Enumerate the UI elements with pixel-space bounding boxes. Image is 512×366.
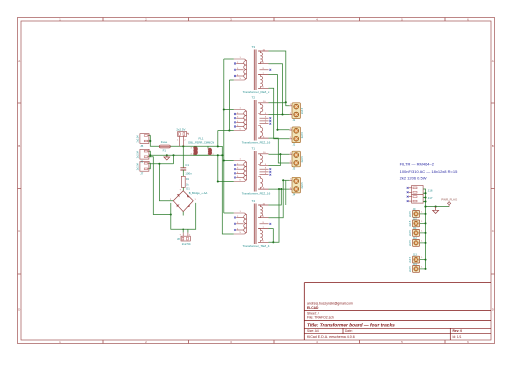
wire fuse to filter (L)	[170, 145, 193, 147]
svg-text:J16: J16	[428, 188, 433, 192]
svg-text:A: A	[18, 59, 20, 63]
junction bus branch	[217, 145, 219, 147]
svg-text:Transformer_FEZ_x: Transformer_FEZ_x	[243, 90, 270, 94]
wire N line to filter	[150, 154, 222, 156]
junction rail 1	[424, 192, 426, 194]
connector J14	[410, 263, 427, 272]
wire J17 pin1 stub	[423, 197, 425, 199]
svg-text:DBL_FERR_CMMCN: DBL_FERR_CMMCN	[188, 140, 214, 144]
svg-text:J7: J7	[140, 172, 143, 176]
junction T4 pin10 join	[280, 188, 282, 190]
wire pin5 chain T3-T2	[228, 80, 230, 131]
svg-text:2x2.54: 2x2.54	[136, 162, 139, 170]
connector J4	[289, 177, 303, 196]
wire J8 pin1	[182, 233, 184, 237]
junction loop left	[170, 213, 172, 215]
junction rail 3	[424, 200, 426, 202]
resistor R1	[181, 176, 185, 187]
junction pin5 chain	[228, 129, 230, 131]
svg-text:2x2.54: 2x2.54	[182, 242, 191, 246]
wire L to T2 pin1	[224, 109, 234, 111]
svg-text:2x3.5: 2x3.5	[410, 240, 412, 246]
svg-text:T3: T3	[252, 45, 256, 49]
svg-text:J5: J5	[140, 144, 143, 148]
junction T4 pin6 join	[278, 188, 280, 190]
svg-text:J14: J14	[413, 263, 418, 266]
junction varistor tap	[182, 145, 184, 147]
no-connect J16/J17 pin 3	[407, 196, 412, 198]
junction T4 pin7	[272, 241, 274, 243]
wire bus riser up	[217, 131, 219, 147]
wire J7 pins loop	[149, 163, 150, 169]
svg-text:F1: F1	[163, 149, 167, 153]
no-connect J16/J17 pin 1	[407, 187, 412, 189]
svg-text:Transformer_FEZ_16: Transformer_FEZ_16	[242, 192, 271, 196]
filter FL1 top link	[193, 146, 218, 148]
wire T4 link	[285, 180, 287, 205]
svg-text:100nF/310 AC — 18x12x8 R=15: 100nF/310 AC — 18x12x8 R=15	[400, 169, 458, 174]
junction bridge feed	[158, 163, 160, 165]
fuse F1	[159, 145, 170, 148]
wire T3 pin7 to J2 pin1	[269, 75, 290, 130]
svg-text:Id: 1/1: Id: 1/1	[453, 335, 462, 339]
svg-text:2x3.5: 2x3.5	[301, 156, 304, 163]
no-connect J16/J17 pin 2	[407, 191, 412, 193]
wire J7 row	[150, 163, 173, 165]
junction T3/T2 top	[285, 101, 287, 103]
svg-text:Title: Transformer board — f: Title: Transformer board — four tracks	[307, 322, 395, 328]
connector J7	[136, 162, 151, 176]
svg-text:2k2 1206 0.5W: 2k2 1206 0.5W	[400, 176, 427, 181]
junction rail pwr	[424, 206, 426, 208]
svg-text:2x2.5V: 2x2.5V	[176, 128, 185, 132]
connector J2	[289, 127, 303, 146]
wire T2 pin10 out	[269, 102, 286, 104]
junction N bus	[221, 154, 223, 156]
svg-text:2x3.5: 2x3.5	[301, 182, 304, 189]
filter FL1 left winding	[194, 146, 198, 154]
junction L bus T2	[223, 108, 225, 110]
junction J6 to N wire	[149, 154, 151, 156]
wire rail to PWR_FLAG	[426, 206, 450, 208]
wire T1 pin10 to J3 pin1	[269, 153, 290, 155]
svg-text:J13: J13	[413, 254, 418, 257]
junction T1 top	[279, 153, 281, 155]
wire T3 pin6 to J2 pin2	[269, 88, 290, 139]
svg-text:Transformer_TEZ_4: Transformer_TEZ_4	[243, 244, 270, 248]
junction J5 pins	[149, 140, 151, 142]
junction drop to J7 net	[172, 154, 174, 156]
svg-text:C1: C1	[185, 163, 189, 167]
wire J17 pin2 stub	[423, 201, 425, 203]
wire T3 pin8 down	[269, 64, 283, 115]
title block frame	[304, 283, 491, 340]
wire to T3 pin5	[229, 79, 233, 81]
wire to T2 pin5 stub	[229, 130, 233, 132]
ground symbol left	[164, 155, 170, 160]
svg-text:2x2.54: 2x2.54	[136, 135, 139, 143]
connector J6	[136, 149, 151, 163]
connector J3	[289, 151, 303, 170]
connector J11	[410, 227, 427, 236]
svg-text:2x3.5: 2x3.5	[410, 211, 412, 217]
wire common rail	[423, 189, 425, 269]
wire to J4 pin1	[283, 179, 289, 181]
bridge rectifier D1	[173, 191, 193, 212]
wire J6 pin2 to loop	[149, 157, 171, 215]
wire T1 pin6 to J4 pin2	[269, 188, 290, 190]
wire T1 pin9 up	[269, 154, 281, 165]
svg-text:2x3.5: 2x3.5	[410, 230, 412, 236]
junction ground tap	[166, 154, 168, 156]
junction T3 pin8 join	[281, 113, 283, 115]
wire L to T3 pin1	[224, 58, 234, 60]
connector J8	[181, 236, 190, 241]
junction N to lower bus	[217, 154, 219, 156]
ground symbol right	[433, 207, 439, 214]
wire J5 pin1 to fuse	[149, 136, 159, 147]
svg-text:ELCAD: ELCAD	[307, 306, 319, 310]
wire C1 to R1	[182, 170, 184, 176]
svg-text:T4: T4	[252, 199, 256, 203]
wire down to bridge left	[159, 164, 173, 201]
wire varistor pin2 down	[182, 136, 184, 146]
transformer T3	[234, 45, 271, 94]
svg-text:Fuse: Fuse	[161, 140, 168, 144]
wire T3 pin10 down	[269, 51, 286, 102]
connector J13	[410, 254, 427, 263]
connector J12	[410, 237, 427, 246]
svg-text:FL1: FL1	[199, 137, 204, 141]
svg-text:2x3.5: 2x3.5	[410, 256, 412, 262]
connector J9	[410, 208, 427, 217]
svg-text:D1: D1	[186, 187, 190, 191]
svg-text:Transformer_FEZ_16: Transformer_FEZ_16	[242, 141, 271, 145]
svg-text:B: B	[492, 144, 494, 148]
connector J17	[412, 194, 424, 203]
wire loop to J8 pin1	[182, 229, 184, 232]
svg-text:J11: J11	[413, 227, 417, 230]
junction rail 2	[424, 196, 426, 198]
transformer T2	[234, 96, 271, 145]
svg-text:2x2.54: 2x2.54	[136, 150, 139, 158]
svg-text:andrzej.buszynski@gmail.com: andrzej.buszynski@gmail.com	[307, 301, 353, 305]
svg-text:2x3.5: 2x3.5	[301, 131, 304, 138]
svg-text:2x3.5: 2x3.5	[410, 266, 412, 272]
wire J6 pins loop	[149, 151, 150, 157]
wire L bus vertical	[223, 59, 225, 213]
junction J4 pin1 feed	[282, 179, 284, 181]
svg-text:2x3.5: 2x3.5	[410, 220, 412, 226]
svg-text:J12: J12	[413, 237, 418, 240]
wire T4 pin10 up	[269, 189, 282, 205]
svg-text:T1: T1	[252, 147, 256, 151]
connector J1	[289, 103, 303, 122]
svg-text:2x3.5: 2x3.5	[301, 107, 304, 114]
svg-text:100n: 100n	[185, 172, 192, 176]
power flag PWR_FLAG	[448, 202, 451, 207]
junction J2 pin1 feed	[276, 129, 278, 131]
svg-text:B_Bridge_+-AA: B_Bridge_+-AA	[189, 191, 208, 195]
filter FL1 right winding	[208, 148, 211, 155]
svg-text:B: B	[18, 144, 20, 148]
svg-text:A: A	[492, 59, 494, 63]
connector J5	[136, 134, 151, 148]
title block text	[307, 301, 462, 338]
svg-text:File: TRAFO2.sch: File: TRAFO2.sch	[307, 315, 334, 319]
wire L to T4 pin1	[224, 212, 234, 214]
wire bus to T1 pin5	[218, 155, 234, 181]
wire J8 pin2 stub	[187, 233, 189, 237]
no-connect J16/J17 pin 4	[407, 200, 412, 202]
wire loop to J8 pin2	[187, 229, 189, 232]
wire T4 pin6 up	[269, 189, 280, 242]
wire to J1 pin1	[286, 102, 290, 106]
transformer T1	[234, 147, 271, 196]
svg-text:KiCad E.D.A. eeschema 4.0.6: KiCad E.D.A. eeschema 4.0.6	[307, 335, 355, 339]
wire to T2 pin5	[218, 130, 230, 132]
capacitor C1	[180, 168, 186, 170]
svg-text:Size: A4: Size: A4	[307, 329, 319, 333]
svg-text:Date:: Date:	[345, 329, 353, 333]
wire R1 to bridge	[182, 187, 184, 190]
connector J16	[412, 186, 424, 195]
wire L to T10 pin1	[224, 160, 234, 162]
svg-text:J17: J17	[428, 196, 433, 200]
junction loop center	[182, 229, 184, 231]
wire J16 pin2 stub	[423, 192, 425, 194]
filter FL1 bottom link	[193, 154, 208, 157]
wire bus step down to T4 pin5	[218, 146, 234, 234]
svg-text:T2: T2	[252, 96, 256, 100]
wire bottom loop	[171, 203, 196, 229]
wire T4 pin8 up	[269, 180, 284, 217]
wire drop to J7 row	[173, 155, 175, 164]
junction L bus T10	[223, 159, 225, 161]
junction T1 pin5	[217, 180, 219, 182]
svg-text:FILTR — RM464–2: FILTR — RM464–2	[400, 162, 435, 167]
wire T4 pin7 down	[269, 229, 274, 243]
svg-text:J10: J10	[413, 217, 418, 220]
connector J10	[410, 217, 427, 226]
varistor connector 2x2.5V	[178, 132, 189, 137]
wire J5 pin2 stub	[149, 140, 150, 142]
svg-text:Rev: 0: Rev: 0	[453, 329, 463, 333]
wire varistor pin1 down	[178, 136, 180, 146]
wire T2 pin6 to J3 pin2	[269, 138, 290, 163]
svg-text:PWR_FLAG: PWR_FLAG	[441, 197, 458, 201]
wire bridge minus stub	[182, 212, 184, 216]
junction ground right	[435, 206, 437, 208]
wire to C1	[182, 146, 184, 168]
wire T2 pin8 to J1 pin2	[269, 114, 290, 116]
transformer T4	[234, 199, 271, 248]
